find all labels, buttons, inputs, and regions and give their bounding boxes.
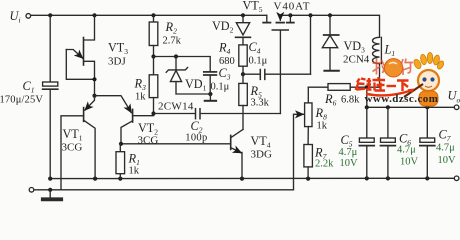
node R2 top junction xyxy=(151,13,155,17)
wire VT2 collector to VT4 base xyxy=(121,143,230,145)
svg-text:3CG: 3CG xyxy=(62,142,83,154)
node C1 bottom rail xyxy=(48,177,52,181)
node C6 top junction xyxy=(386,105,390,109)
svg-text:C4: C4 xyxy=(249,40,261,56)
svg-text:3CG: 3CG xyxy=(138,134,159,146)
svg-text:www.dzsc.com: www.dzsc.com xyxy=(365,93,439,105)
wire C4 to rail xyxy=(310,15,312,74)
svg-text:2.2k: 2.2k xyxy=(315,159,334,170)
svg-text:V40AT: V40AT xyxy=(274,1,311,13)
capacitor C4 xyxy=(243,70,311,80)
watermark orange ball xyxy=(384,59,402,77)
svg-text:2CW14: 2CW14 xyxy=(158,100,194,112)
terminal input minus xyxy=(29,188,34,193)
svg-text:VD3: VD3 xyxy=(344,39,366,55)
potentiometer R8 xyxy=(305,87,312,144)
node C6 bottom rail xyxy=(386,176,390,180)
resistor R3 xyxy=(149,57,158,114)
svg-text:R2: R2 xyxy=(165,20,178,36)
ground main xyxy=(43,190,61,200)
node R4-R5-C4 junction xyxy=(241,72,245,76)
svg-text:10V: 10V xyxy=(438,155,457,166)
capacitor C6 xyxy=(381,107,396,178)
terminal output plus xyxy=(454,105,459,110)
transistor VT4 xyxy=(231,129,243,178)
capacitor C2 xyxy=(154,109,281,119)
svg-text:4.7μ: 4.7μ xyxy=(436,143,455,154)
svg-text:VD1: VD1 xyxy=(185,77,207,93)
resistor R1 xyxy=(116,144,125,179)
svg-text:1k: 1k xyxy=(129,166,140,177)
svg-text:3DG: 3DG xyxy=(251,149,272,161)
terminal output minus xyxy=(454,176,459,181)
node C7 bottom rail xyxy=(425,176,429,180)
watermark red arrow swoosh xyxy=(366,91,411,96)
svg-text:0.1μ: 0.1μ xyxy=(211,82,230,93)
inductor L1 xyxy=(372,37,381,87)
svg-text:1k: 1k xyxy=(135,92,146,103)
node VT4 emitter rail xyxy=(240,177,244,181)
svg-text:R8: R8 xyxy=(315,106,328,122)
wire bottom rail xyxy=(50,177,454,179)
transistor VT2 xyxy=(95,96,154,144)
diode VD2 xyxy=(236,15,251,45)
svg-text:L1: L1 xyxy=(384,42,396,58)
resistor R2 xyxy=(149,15,158,56)
ground VD1-C3 xyxy=(205,94,216,101)
ground VD3 xyxy=(324,70,338,72)
svg-text:C7: C7 xyxy=(439,128,451,144)
node R1 top junction xyxy=(119,142,123,146)
svg-text:170μ/25V: 170μ/25V xyxy=(0,95,43,106)
capacitor C1 xyxy=(43,15,58,178)
node C5 bottom rail xyxy=(365,176,369,180)
node C5 top junction xyxy=(365,105,369,109)
watermark mascot pen xyxy=(404,84,423,97)
svg-text:R6: R6 xyxy=(324,92,337,108)
svg-text:R3: R3 xyxy=(134,77,147,93)
node VT3 gate-source tie xyxy=(92,77,96,81)
svg-text:10V: 10V xyxy=(400,157,419,168)
watermark dzsc xyxy=(356,53,445,107)
capacitor C5 xyxy=(359,107,374,178)
svg-text:C3: C3 xyxy=(219,66,231,82)
svg-text:VT3: VT3 xyxy=(108,41,128,57)
svg-text:R4: R4 xyxy=(218,41,231,57)
terminal Ui input xyxy=(26,14,31,19)
resistor R6 xyxy=(308,84,379,91)
node VD2 top junction xyxy=(241,13,245,17)
wire VT5 gate line xyxy=(279,31,281,114)
capacitor C3 xyxy=(204,72,217,94)
svg-text:VT1: VT1 xyxy=(63,127,83,143)
svg-text:680: 680 xyxy=(219,56,235,67)
watermark mascot body xyxy=(419,91,438,106)
transistor VT3 JFET current source xyxy=(66,15,94,95)
node C7 top junction xyxy=(425,105,429,109)
svg-text:100p: 100p xyxy=(185,132,207,143)
svg-text:6.8k: 6.8k xyxy=(341,95,360,106)
watermark zhao-xin-pian outline chars xyxy=(373,58,414,75)
node VT1 collector rail xyxy=(93,177,97,181)
node VD1-C3 ground junction xyxy=(208,92,212,96)
svg-text:10V: 10V xyxy=(340,158,359,169)
svg-text:C1: C1 xyxy=(23,79,35,95)
svg-text:3.3k: 3.3k xyxy=(251,98,270,109)
resistor R5 xyxy=(239,74,248,129)
svg-text:2CN4: 2CN4 xyxy=(343,54,370,66)
watermark weiku text xyxy=(356,77,409,91)
node R6-output junction xyxy=(365,85,369,89)
svg-text:4.7μ: 4.7μ xyxy=(339,147,358,158)
svg-text:2.7k: 2.7k xyxy=(163,36,182,47)
node VT5 drain junction xyxy=(288,13,292,17)
wire top rail left segment xyxy=(31,14,267,16)
svg-text:VD2: VD2 xyxy=(212,19,234,35)
zener diode VD1 2CW14 xyxy=(166,57,210,95)
node sense-ground junction xyxy=(48,188,52,192)
transistor VT1 xyxy=(61,96,95,190)
svg-text:VT4: VT4 xyxy=(251,134,271,150)
wire output plus xyxy=(367,106,455,108)
transistor VT5 V40AT MOSFET xyxy=(263,15,294,30)
node VT3 drain junction xyxy=(92,13,96,17)
svg-text:Uo: Uo xyxy=(448,89,460,105)
watermark mascot crown xyxy=(413,53,445,71)
watermark mascot head xyxy=(418,70,439,91)
node C4 feedback junction xyxy=(308,13,312,17)
node R7 bottom rail xyxy=(306,177,310,181)
wire reference node xyxy=(154,57,211,72)
resistor R7 xyxy=(304,145,313,179)
node diff-pair emitter junction xyxy=(92,94,96,98)
wire output node drop xyxy=(366,87,368,107)
capacitor C7 xyxy=(420,107,435,178)
resistor R4 xyxy=(239,45,247,74)
svg-text:1k: 1k xyxy=(317,121,328,132)
svg-text:3DJ: 3DJ xyxy=(108,56,126,68)
node input junction C1 xyxy=(48,13,52,17)
svg-text:4.7μ: 4.7μ xyxy=(397,145,416,156)
diode VD3 freewheeling xyxy=(322,15,338,70)
svg-text:Ui: Ui xyxy=(10,9,21,25)
node R1 bottom rail xyxy=(118,177,122,181)
node VD3 cathode junction xyxy=(328,13,332,17)
node R2-R3 junction xyxy=(151,54,155,58)
node VD1 cathode junction xyxy=(174,54,178,58)
node VT2 base junction xyxy=(151,111,155,115)
wire top rail right segment xyxy=(280,15,379,37)
svg-text:0.1μ: 0.1μ xyxy=(249,56,268,67)
wire input minus / sense line xyxy=(34,114,303,190)
svg-text:VT5: VT5 xyxy=(243,0,263,14)
